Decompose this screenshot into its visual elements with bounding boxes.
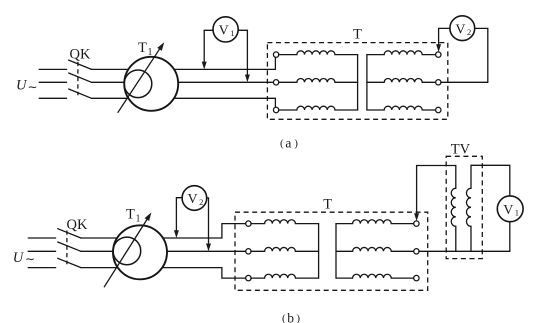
label U~ (supply b) — [13, 250, 35, 266]
wire phase A variac to box (b) — [163, 224, 246, 238]
voltmeter V1 (a) — [213, 17, 238, 42]
svg-text:(: ( — [280, 137, 284, 149]
wire V1 right lead (a) — [238, 30, 247, 76]
variac T1 big circle (a) — [124, 57, 178, 111]
switch QK blade bottom (b) — [58, 258, 81, 267]
switch QK linkage (a) — [77, 62, 79, 95]
wire phase C variac to box (b) — [162, 268, 246, 279]
wire phase B switch to variac (a) — [92, 81, 125, 83]
wire secondary star bus (b) — [335, 224, 337, 279]
voltmeter V2 (b) — [182, 186, 207, 211]
winding TV primary (b) — [451, 166, 456, 252]
svg-text:1: 1 — [515, 208, 519, 218]
wire supply stub top (a) — [39, 68, 66, 70]
transformer T dashed box (b) — [235, 212, 428, 290]
wire V2 left lead with arrow (b) — [176, 198, 181, 232]
terminal primary bottom (b) — [246, 275, 251, 280]
terminal secondary mid (a) — [436, 80, 441, 85]
label U~ (supply a) — [16, 78, 38, 95]
arrow V1 left (a) — [203, 63, 205, 67]
voltmeter V2 (a) — [450, 16, 475, 41]
winding TV secondary (b) — [466, 165, 471, 251]
svg-text:2: 2 — [467, 27, 471, 37]
winding primary mid (b) — [251, 247, 319, 251]
terminal primary mid (b) — [246, 249, 251, 254]
switch QK blade top (b) — [58, 229, 81, 238]
wire V2 right lead with arrow (b) — [207, 198, 209, 245]
switch QK blade top (a) — [69, 60, 92, 69]
wire supply stub bottom (a) — [39, 97, 66, 99]
svg-text:T: T — [138, 40, 147, 56]
svg-text:1: 1 — [136, 214, 141, 225]
svg-text:∼: ∼ — [28, 80, 38, 94]
wire supply stub mid (a) — [39, 81, 66, 83]
svg-text:b: b — [287, 310, 294, 323]
winding primary bottom (b) — [251, 274, 319, 278]
terminal primary top (b) — [246, 221, 251, 226]
wire primary star bus (a) — [357, 55, 359, 110]
wire TV primary feed with arrow (b) — [417, 166, 456, 215]
svg-text:T: T — [323, 196, 332, 212]
wire mid terminal to V2 return (a) — [441, 81, 488, 83]
caption (b) — [282, 310, 300, 323]
svg-text:QK: QK — [70, 47, 91, 63]
terminal primary bottom (a) — [273, 107, 278, 112]
wire phase A variac to box (a) — [174, 55, 275, 70]
terminal secondary bottom (a) — [436, 107, 441, 112]
terminal primary mid (a) — [273, 80, 278, 85]
winding primary bottom (a) — [279, 106, 358, 110]
terminal secondary top (b) — [414, 221, 419, 226]
wire phase B variac to terminal (b) — [167, 250, 246, 252]
wire phase A switch to variac (b) — [81, 237, 117, 239]
svg-text:QK: QK — [67, 217, 88, 233]
winding primary mid (a) — [279, 79, 358, 83]
variac T1 arrow (a) — [118, 46, 162, 113]
wire V2 right lead (a) — [475, 28, 488, 82]
wire phase B variac to terminal (a) — [178, 81, 273, 83]
svg-text:TV: TV — [451, 142, 471, 158]
svg-text:): ) — [296, 312, 300, 323]
wire phase C variac to box (a) — [174, 98, 275, 110]
svg-text:1: 1 — [148, 47, 153, 58]
label T1 (b) — [126, 207, 141, 225]
voltmeter V1 (b) — [497, 196, 523, 222]
winding secondary top (b) — [336, 220, 414, 224]
caption (a) — [280, 136, 298, 151]
wire secondary star bus (a) — [366, 55, 368, 110]
wire V1 bottom lead (b) — [509, 222, 511, 252]
winding primary top (b) — [251, 220, 319, 224]
switch QK blade bottom (a) — [69, 89, 92, 98]
variac T1 arrow (b) — [104, 216, 149, 287]
winding secondary mid (a) — [367, 79, 436, 83]
transformer T dashed box (a) — [267, 43, 447, 120]
variac T1 small circle (a) — [124, 70, 152, 98]
wire supply stub mid (b) — [28, 250, 55, 252]
winding primary top (a) — [279, 51, 358, 55]
svg-text:): ) — [294, 137, 298, 149]
terminal secondary bottom (b) — [414, 275, 419, 280]
terminal primary top (a) — [273, 52, 278, 57]
winding secondary bottom (a) — [367, 106, 436, 110]
transformer TV dashed box (b) — [446, 156, 482, 258]
svg-text:2: 2 — [199, 197, 203, 207]
terminal secondary top (a) — [436, 52, 441, 57]
switch QK blade mid (a) — [69, 73, 92, 82]
svg-text:U: U — [16, 78, 28, 94]
wire supply stub top (b) — [28, 237, 55, 239]
wire mid bus terminal to V1 (b) — [419, 250, 510, 252]
variac T1 big circle (b) — [113, 225, 167, 279]
svg-text:∼: ∼ — [25, 252, 35, 266]
wire supply stub bottom (b) — [28, 267, 55, 269]
winding secondary top (a) — [367, 51, 436, 55]
svg-text:V: V — [219, 24, 229, 39]
wire V1 left lead (a) — [204, 30, 213, 63]
wire phase A switch to variac (a) — [92, 68, 129, 70]
svg-text:a: a — [285, 136, 291, 151]
wire phase B switch to variac (b) — [81, 250, 113, 252]
wire phase C switch to variac (b) — [81, 267, 118, 269]
wire V2 left lead with arrow (a) — [439, 28, 450, 45]
wire TV secondary to V1 top (b) — [471, 165, 510, 196]
svg-text:V: V — [455, 22, 465, 37]
variac T1 small circle (b) — [113, 237, 141, 265]
svg-text:T: T — [126, 207, 135, 223]
svg-text:T: T — [353, 27, 362, 43]
wire primary star bus (b) — [318, 224, 320, 279]
svg-text:1: 1 — [230, 28, 234, 38]
winding secondary mid (b) — [336, 247, 414, 251]
svg-text:V: V — [503, 203, 513, 218]
wire phase C switch to variac (a) — [92, 97, 129, 99]
winding secondary bottom (b) — [336, 274, 414, 278]
switch QK blade mid (b) — [58, 242, 81, 251]
terminal secondary mid (b) — [414, 249, 419, 254]
svg-text:U: U — [13, 250, 25, 266]
arrow V1 right (a) — [245, 75, 250, 83]
svg-text:(: ( — [282, 312, 286, 323]
svg-text:V: V — [188, 192, 198, 207]
switch QK linkage (b) — [66, 231, 68, 265]
label T1 (a) — [138, 40, 153, 58]
